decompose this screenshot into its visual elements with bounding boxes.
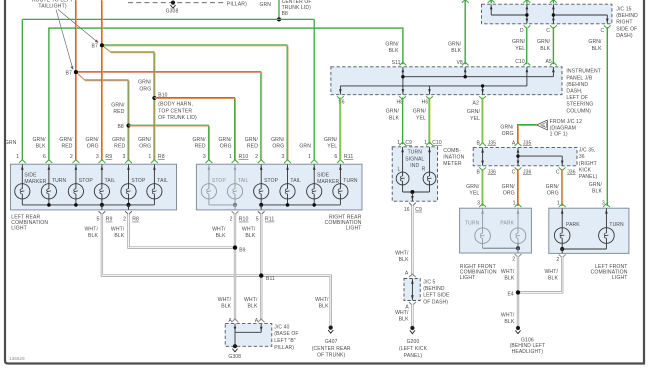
junction dots on left rear bus (47, 203, 51, 207)
svg-text:B8: B8 (117, 124, 123, 130)
svg-text:D: D (520, 28, 524, 34)
svg-text:SIDE OF: SIDE OF (616, 26, 637, 32)
svg-text:TAIL: TAIL (238, 178, 249, 184)
svg-text:SIGNAL: SIGNAL (405, 156, 424, 162)
svg-text:R11: R11 (265, 217, 275, 223)
svg-text:B7: B7 (92, 44, 98, 50)
svg-text:1: 1 (513, 200, 516, 206)
J/B pin C10 top (524, 62, 531, 65)
wire GRN/YEL H6 to meter C10 (428, 98, 430, 145)
svg-text:RED: RED (61, 144, 72, 150)
svg-text:R8: R8 (132, 217, 139, 223)
left front combination light box (549, 208, 629, 253)
svg-text:5: 5 (96, 217, 99, 223)
svg-text:A: A (229, 318, 233, 324)
J/B pin S6 bottom (337, 96, 344, 99)
J/C 15 pin C bottom right (604, 25, 611, 28)
turn signal indicator internals (396, 147, 436, 201)
svg-text:J36: J36 (523, 170, 532, 176)
svg-text:WHT/: WHT/ (212, 226, 226, 232)
svg-text:DASH): DASH) (616, 33, 633, 39)
svg-text:C: C (512, 170, 516, 176)
svg-text:B9: B9 (239, 248, 245, 254)
svg-text:G308: G308 (228, 354, 241, 360)
svg-text:GRN/: GRN/ (385, 41, 399, 47)
dashed ground wire to G308 (top, cut off) (128, 2, 224, 4)
svg-text:GRN/: GRN/ (512, 39, 526, 45)
svg-text:J/C 15: J/C 15 (616, 7, 631, 13)
left rear pin entry + bulb TAIL (99, 160, 106, 163)
svg-text:WHT/: WHT/ (501, 313, 515, 319)
node B11 splice (259, 273, 263, 277)
wire GRN to left rear side marker (21, 19, 23, 160)
J/C 36 pin C J36 bottom right (559, 167, 566, 170)
svg-text:RED: RED (113, 109, 124, 115)
wire GRN/RED splice B7 diagonal branch to left rear stop 2 (75, 72, 128, 160)
svg-text:2: 2 (255, 154, 258, 160)
svg-text:RED: RED (247, 144, 258, 150)
J/C 15 top pin feeds (cut at top) (490, 0, 492, 3)
wire GRN/BLK J/C15 C to left front turn (606, 27, 608, 206)
svg-text:BLK: BLK (248, 303, 258, 309)
right rear pin entry + bulb SIDE MARKER (311, 160, 318, 163)
svg-text:S6: S6 (338, 99, 344, 105)
svg-text:BLK: BLK (592, 46, 602, 52)
node B10 splice on tail wire (152, 96, 156, 100)
J/C 5 internal wire (411, 279, 414, 301)
svg-text:METER: METER (443, 161, 462, 167)
svg-text:B11: B11 (266, 276, 275, 282)
svg-text:A2: A2 (473, 100, 479, 106)
svg-text:(CENTER REAR: (CENTER REAR (312, 346, 351, 352)
J/C 36 pin B J35 top (479, 143, 486, 146)
svg-text:BLK: BLK (592, 189, 602, 195)
svg-text:(BODY HARN,: (BODY HARN, (158, 101, 193, 107)
svg-text:OF TRUNK): OF TRUNK) (317, 353, 345, 359)
svg-text:WHT/: WHT/ (218, 297, 232, 303)
svg-text:MARKER: MARKER (317, 179, 339, 185)
junction connector J/C 5 box (404, 279, 420, 301)
junction connector J/C 15 box (482, 4, 612, 24)
svg-text:B8: B8 (282, 11, 288, 17)
svg-text:(DIAGRAM: (DIAGRAM (550, 125, 576, 131)
svg-text:YEL: YEL (327, 144, 337, 150)
instrument panel J/B box (331, 67, 562, 95)
svg-text:GRN/: GRN/ (537, 39, 551, 45)
left rear pin entry + bulb TURN (46, 160, 53, 163)
svg-text:L: L (397, 166, 400, 172)
svg-text:B: B (477, 140, 481, 146)
svg-text:BLK: BLK (36, 144, 46, 150)
svg-text:1: 1 (557, 200, 560, 206)
right front ground bus (483, 244, 520, 253)
right rear exit pin 5 R11 (260, 205, 262, 210)
svg-text:TOP CENTER: TOP CENTER (158, 108, 192, 114)
ground G308 (top) (171, 1, 175, 5)
svg-text:STOP: STOP (264, 178, 279, 184)
svg-text:MARKER: MARKER (24, 179, 46, 185)
wire GRN to right rear side marker (313, 19, 315, 160)
svg-text:WHT/: WHT/ (111, 226, 125, 232)
svg-text:STOP: STOP (79, 178, 94, 184)
svg-text:ORG: ORG (502, 131, 514, 137)
svg-text:ORG: ORG (547, 191, 559, 197)
right rear pin entry + bulb STOP (258, 160, 265, 163)
svg-text:BLK: BLK (504, 275, 514, 281)
svg-text:STEERING: STEERING (566, 102, 593, 108)
left rear exit pin 2 R8 (128, 205, 130, 210)
svg-text:B7: B7 (66, 71, 72, 77)
wire GRN/ORG J/C36 C to right front park (517, 169, 519, 206)
svg-text:BLK: BLK (504, 319, 514, 325)
wire GRN/RED from top through splice B7 to left rear stop (74, 0, 76, 160)
svg-text:G200: G200 (407, 339, 420, 345)
svg-text:BLK: BLK (221, 303, 231, 309)
svg-text:GRN/: GRN/ (271, 137, 285, 143)
wire WHT/BLK left front to E4 (520, 257, 562, 293)
svg-text:SIDE: SIDE (317, 173, 330, 179)
J/B pin A5 top (550, 62, 557, 65)
J/B pin A2 bottom (479, 96, 486, 99)
svg-text:TURN: TURN (408, 149, 423, 155)
svg-text:J36: J36 (488, 170, 497, 176)
svg-text:GRN: GRN (260, 2, 272, 8)
left rear pin entry + bulb STOP (125, 160, 132, 163)
wire GRN/BLK V8 from top to instrument panel (464, 0, 466, 64)
wire GRN/YEL S6 to right rear turn (339, 98, 341, 161)
svg-text:C: C (600, 28, 604, 34)
svg-text:KICK: KICK (579, 168, 592, 174)
node B8 trunk lid junction (277, 17, 281, 21)
callout arrow to splice B7 upper (58, 10, 97, 42)
svg-text:HEADLIGHT): HEADLIGHT) (512, 349, 544, 355)
right rear black ground bus (261, 204, 340, 206)
svg-text:3: 3 (477, 200, 480, 206)
svg-text:COLUMN): COLUMN) (566, 108, 591, 114)
svg-text:YEL: YEL (470, 116, 480, 122)
svg-text:PARK: PARK (566, 222, 580, 228)
svg-text:R10: R10 (239, 217, 249, 223)
wire GRN/ORG splice B10 branch to right rear tail 1 (154, 98, 235, 161)
left front pin 1 entry + PARK bulb (559, 204, 566, 207)
svg-text:3: 3 (203, 154, 206, 160)
left rear combination light box (11, 164, 177, 210)
svg-text:1: 1 (148, 154, 151, 160)
svg-text:RIGHT: RIGHT (616, 20, 632, 26)
J/C 15 internal wiring (490, 4, 609, 23)
svg-text:LIGHT: LIGHT (612, 275, 628, 281)
svg-text:WHT/: WHT/ (501, 269, 515, 275)
wire GRN/ORG splice B7 diagonal branch to left rear tail 2 (101, 45, 154, 160)
svg-text:INSTRUMENT: INSTRUMENT (566, 69, 601, 75)
svg-text:C10: C10 (432, 140, 442, 146)
J/C 36 internal wiring (481, 148, 563, 166)
wire WHT/BLK splice B11 branch to ground G407 (263, 276, 331, 326)
svg-text:R9: R9 (105, 154, 112, 160)
svg-text:TAIL: TAIL (105, 178, 116, 184)
svg-text:A: A (255, 318, 259, 324)
node B9 splice (233, 245, 237, 249)
wire GRN horizontal bus to side markers (22, 18, 314, 20)
meter pin 1 C9 (399, 142, 406, 145)
svg-text:1: 1 (308, 154, 311, 160)
wire GRN/ORG from triangle A to J/C 36 A J35 (518, 125, 537, 143)
svg-text:STOP: STOP (212, 178, 227, 184)
svg-text:GRN/: GRN/ (138, 137, 152, 143)
svg-text:GRN/: GRN/ (413, 109, 427, 115)
svg-text:PILLAR): PILLAR) (274, 345, 294, 351)
svg-text:OF DASH): OF DASH) (423, 299, 448, 305)
wire GRN/ORG from top through splice B7 to left rear tail (100, 0, 102, 160)
svg-text:ORG: ORG (87, 144, 99, 150)
svg-text:1: 1 (424, 140, 427, 146)
svg-text:PANEL): PANEL) (579, 174, 598, 180)
svg-text:GRN/: GRN/ (466, 184, 480, 190)
wire GRN/YEL J/C36 B to right front turn (481, 169, 483, 206)
right rear pin entry + bulb TAIL (284, 160, 291, 163)
svg-text:WHT/: WHT/ (545, 269, 559, 275)
svg-text:WHT/: WHT/ (315, 297, 329, 303)
J/C 40 pin A left (232, 319, 239, 322)
svg-text:WHT/: WHT/ (395, 250, 409, 256)
right rear exit pin 2 R10 (234, 205, 236, 210)
svg-text:TURN: TURN (52, 178, 67, 184)
ground G308 (233, 344, 237, 348)
svg-text:C10: C10 (515, 59, 525, 65)
svg-text:J/C 35,: J/C 35, (579, 147, 596, 153)
svg-text:GRN/: GRN/ (467, 109, 481, 115)
svg-text:GRN/: GRN/ (111, 102, 125, 108)
from J/C 12 triangle connector A (537, 120, 548, 130)
svg-text:RED: RED (114, 144, 125, 150)
svg-text:R9: R9 (106, 217, 113, 223)
svg-text:J35: J35 (488, 140, 497, 146)
J/C 15 pin C bottom (550, 25, 557, 28)
svg-text:BLK: BLK (389, 115, 399, 121)
left rear pin entry + bulb STOP (73, 160, 80, 163)
svg-text:TURN: TURN (465, 221, 480, 227)
svg-text:C9: C9 (405, 140, 412, 146)
svg-text:OF TRUNK LID): OF TRUNK LID) (158, 115, 197, 121)
wire WHT/BLK left rear pin2 to splice B9 (129, 214, 233, 248)
right rear pin entry + bulb STOP (206, 160, 213, 163)
wire WHT/BLK J/C 5 to ground G200 (411, 304, 413, 326)
J/B pin H6 bottom (426, 96, 433, 99)
svg-text:YEL: YEL (416, 115, 426, 121)
svg-text:GRN/: GRN/ (546, 184, 560, 190)
svg-text:GRN: GRN (299, 144, 311, 150)
svg-text:2: 2 (556, 257, 559, 263)
svg-text:R10: R10 (239, 154, 249, 160)
wire GRN/BLK left rear turn to instrument panel S11 (49, 28, 403, 161)
svg-text:ORG: ORG (272, 144, 284, 150)
right front exit pin 2 (515, 254, 522, 257)
svg-text:GRN/: GRN/ (500, 125, 514, 131)
svg-text:ORG: ORG (139, 144, 151, 150)
right rear combination light box (196, 164, 362, 210)
svg-text:R11: R11 (344, 154, 354, 160)
svg-text:WHT/: WHT/ (242, 226, 256, 232)
svg-text:LIGHT: LIGHT (11, 226, 27, 232)
svg-text:PANEL): PANEL) (404, 353, 423, 359)
wire GRN/ORG J/C36 C to left front park (561, 169, 563, 206)
left rear exit pin 5 R9 (101, 205, 103, 210)
svg-text:BLK: BLK (245, 233, 255, 239)
left rear pin entry + bulb SIDE MARKER (19, 160, 26, 163)
left front pin 3 entry + TURN bulb (603, 204, 610, 207)
svg-text:GRN/: GRN/ (218, 137, 232, 143)
svg-text:1 OF 1): 1 OF 1) (550, 132, 568, 138)
callout arrow to splice B7 lower (56, 10, 72, 68)
svg-text:36: 36 (579, 154, 585, 160)
svg-text:TAIL: TAIL (290, 178, 301, 184)
J/C 40 pin A right (258, 319, 265, 322)
svg-text:E4: E4 (507, 292, 513, 298)
svg-text:1: 1 (397, 140, 400, 146)
svg-text:BLK: BLK (399, 257, 409, 263)
right rear gray ground bus (option) (209, 204, 235, 206)
svg-text:SIDE: SIDE (24, 173, 37, 179)
J/C 36 pin C J36 bottom (515, 167, 522, 170)
svg-text:LEFT "B": LEFT "B" (274, 338, 295, 344)
svg-text:PANEL J/B: PANEL J/B (566, 75, 592, 81)
svg-text:A5: A5 (545, 59, 551, 65)
svg-text:DASH,: DASH, (566, 89, 582, 95)
svg-text:PARK: PARK (500, 221, 514, 227)
svg-text:B: B (477, 170, 481, 176)
svg-text:A: A (405, 271, 409, 277)
svg-text:RED: RED (195, 144, 206, 150)
J/C 36 pin A J35 top (515, 143, 522, 146)
J/C 5 pin A bottom (409, 302, 416, 305)
svg-text:(LEFT KICK: (LEFT KICK (399, 346, 428, 352)
wire WHT/BLK right rear pin5 through B11 to J/C 40 (260, 214, 262, 321)
svg-text:2: 2 (230, 217, 233, 223)
svg-text:GRN/: GRN/ (588, 39, 602, 45)
svg-text:6: 6 (334, 154, 337, 160)
svg-text:WHT/: WHT/ (395, 310, 409, 316)
svg-text:C9: C9 (415, 207, 422, 213)
meter pin 16 C9 bottom (409, 203, 416, 206)
svg-text:ORG: ORG (139, 86, 151, 92)
J/C 40 internal wiring (234, 324, 263, 346)
svg-text:V8: V8 (456, 60, 462, 66)
svg-text:(RIGHT: (RIGHT (579, 161, 597, 167)
svg-text:BLK: BLK (389, 48, 399, 54)
svg-text:BLK: BLK (114, 233, 124, 239)
wire WHT/BLK right rear pin2 through B9 to J/C 40 (234, 214, 236, 321)
svg-text:2: 2 (123, 217, 126, 223)
svg-text:GRN/: GRN/ (59, 137, 73, 143)
svg-text:A: A (542, 123, 545, 128)
svg-text:YEL: YEL (469, 191, 479, 197)
svg-text:IND: IND (410, 163, 419, 169)
svg-text:3: 3 (96, 154, 99, 160)
svg-text:COMB-: COMB- (443, 148, 461, 154)
wire GRN/YEL A2 to J/C 36 B J35 (481, 98, 483, 144)
svg-text:S11: S11 (392, 60, 401, 66)
meter pin 1 C10 (426, 142, 433, 145)
svg-text:(BEHIND: (BEHIND (616, 13, 638, 19)
svg-text:TURN: TURN (343, 178, 358, 184)
svg-text:BLK: BLK (88, 233, 98, 239)
J/C 5 pin A top (409, 274, 416, 277)
node B8 splice on stop wire (126, 124, 130, 128)
svg-text:BLK: BLK (451, 48, 461, 54)
svg-text:R: R (422, 166, 426, 172)
svg-text:5: 5 (256, 217, 259, 223)
J/B pin H8 bottom (399, 96, 406, 99)
svg-text:C: C (546, 28, 550, 34)
svg-text:STOP: STOP (131, 178, 146, 184)
svg-text:BLK: BLK (216, 233, 226, 239)
svg-text:LEFT OF: LEFT OF (566, 95, 588, 101)
J/C 15 pin D bottom (524, 25, 531, 28)
junction connector J/C 40 box (225, 324, 272, 347)
right rear pin entry + bulb TURN (337, 160, 344, 163)
J/B internal wiring (339, 67, 555, 95)
node B7 lower splice (74, 70, 78, 74)
svg-text:J/C 40: J/C 40 (274, 324, 289, 330)
svg-text:C: C (556, 170, 560, 176)
svg-text:(BEHIND: (BEHIND (423, 286, 445, 292)
svg-text:GRN/: GRN/ (324, 137, 338, 143)
svg-text:TURN: TURN (609, 222, 624, 228)
svg-text:R8: R8 (158, 154, 165, 160)
svg-text:GRN: GRN (5, 140, 17, 146)
ground G200 (410, 326, 414, 330)
svg-text:GRN/: GRN/ (192, 137, 206, 143)
node E4 splice (517, 290, 519, 326)
wire GRN/ORG splice B7 branch to right rear tail 2 (101, 45, 287, 160)
wire GRN/YEL J/C15 D to J/B C10 (525, 27, 527, 64)
node B7 upper splice (100, 43, 104, 47)
svg-text:BLK: BLK (548, 275, 558, 281)
right front pin 3 entry + TURN bulb (479, 204, 486, 207)
svg-text:WHT/: WHT/ (244, 297, 258, 303)
wire GRN/RED splice B8 branch to right rear stop 1 (128, 125, 208, 160)
svg-text:(BASE OF: (BASE OF (274, 331, 298, 337)
svg-text:6: 6 (43, 154, 46, 160)
svg-text:J36: J36 (567, 170, 576, 176)
svg-text:3: 3 (281, 154, 284, 160)
junction connector J/C 35,36 box (473, 147, 577, 165)
svg-text:2: 2 (512, 256, 515, 262)
ground G106 (516, 326, 520, 330)
svg-text:TAILLIGHT): TAILLIGHT) (38, 3, 66, 9)
svg-text:FROM J/C 12: FROM J/C 12 (550, 119, 582, 125)
svg-text:A: A (512, 140, 516, 146)
left front exit pin 2 (559, 255, 566, 258)
svg-text:GRN/: GRN/ (112, 137, 126, 143)
svg-text:INATION: INATION (443, 155, 464, 161)
wire GRN/RED splice B7 branch to right rear stop (75, 72, 260, 160)
wire WHT/BLK right front to E4 (517, 256, 519, 290)
svg-text:J/C 5: J/C 5 (423, 280, 435, 286)
left front ground bus (560, 243, 606, 253)
svg-text:1: 1 (229, 154, 232, 160)
svg-text:LIGHT: LIGHT (460, 275, 476, 281)
svg-text:BLK: BLK (399, 316, 409, 322)
wire GRN/BLK J/C15 C to J/B A5 (552, 27, 554, 64)
svg-text:GRN/: GRN/ (85, 137, 99, 143)
svg-text:GRN/: GRN/ (245, 137, 259, 143)
svg-text:136529: 136529 (9, 356, 25, 361)
wire GRN from trunk-lid splice B8 (vertical at top) (278, 0, 280, 19)
svg-text:WHT/: WHT/ (85, 226, 99, 232)
svg-text:2: 2 (70, 154, 73, 160)
svg-text:GRN/: GRN/ (589, 182, 603, 188)
